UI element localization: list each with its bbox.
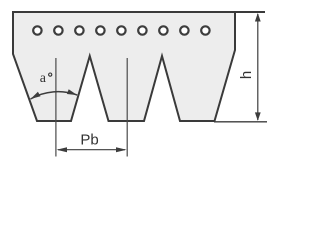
- svg-text:a: a: [40, 71, 47, 86]
- arrowhead h top: [255, 13, 261, 22]
- top reference line extension: [235, 11, 265, 13]
- cord circle 7: [159, 26, 167, 34]
- arrowhead Pb right: [116, 147, 127, 152]
- cord circle 6: [138, 26, 146, 34]
- cord circle 4: [96, 26, 104, 34]
- dimension line Pb: [58, 149, 125, 151]
- belt body: [13, 12, 235, 121]
- arrowhead arc left: [31, 92, 41, 99]
- cord circle 3: [75, 26, 83, 34]
- degree mark: [49, 73, 52, 76]
- extension line left (rib 1 centerline): [55, 58, 57, 157]
- cord circle 2: [54, 26, 62, 34]
- bottom reference line: [214, 121, 267, 123]
- dimension line h: [257, 14, 259, 120]
- extension line right (rib 2 centerline): [126, 58, 128, 157]
- arrowhead h bottom: [255, 112, 261, 121]
- cord circle 8: [180, 26, 188, 34]
- cord circle 9: [201, 26, 209, 34]
- arrowhead Pb left: [57, 147, 68, 152]
- svg-text:h: h: [238, 71, 255, 79]
- svg-text:Pb: Pb: [80, 132, 98, 149]
- arrowhead arc right: [67, 89, 77, 95]
- cord circle 1: [33, 26, 41, 34]
- cord circle 5: [117, 26, 125, 34]
- angle arc a: [31, 92, 78, 99]
